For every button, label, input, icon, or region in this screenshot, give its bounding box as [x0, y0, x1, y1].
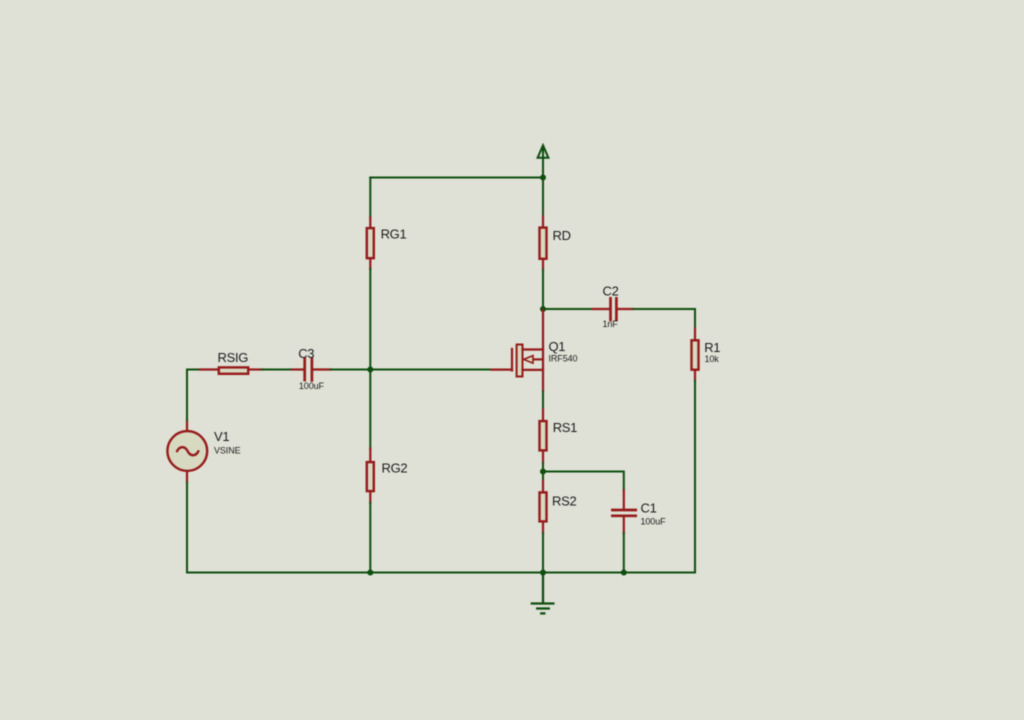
- capacitor C1: [612, 491, 666, 534]
- svg-text:RG2: RG2: [382, 461, 408, 476]
- wire top rail: [370, 177, 543, 179]
- svg-text:RD: RD: [553, 228, 571, 243]
- power symbol VDD arrow: [538, 145, 549, 158]
- wire C3 to gate: [331, 369, 492, 371]
- node drain junction: [540, 306, 546, 312]
- transistor Q1 IRF540: [492, 310, 578, 392]
- resistor RSIG: [200, 350, 262, 374]
- svg-text:C3: C3: [298, 346, 314, 361]
- svg-text:R1: R1: [704, 340, 720, 355]
- wire power to junction: [542, 158, 544, 178]
- wire RS1 bottom to junction: [542, 463, 544, 472]
- wire RS2 bottom: [542, 533, 544, 572]
- resistor RS1: [540, 410, 578, 464]
- svg-text:100uF: 100uF: [641, 517, 667, 527]
- wire source junction to C1: [543, 472, 624, 491]
- svg-text:IRF540: IRF540: [549, 354, 578, 364]
- wire C2 to R1 corner: [634, 309, 696, 329]
- source V1: [167, 420, 240, 482]
- svg-text:Q1: Q1: [549, 339, 566, 354]
- svg-text:RS1: RS1: [553, 420, 577, 435]
- wire Q1 source to RS1: [542, 392, 544, 410]
- svg-text:RSIG: RSIG: [218, 350, 249, 365]
- node source junction: [540, 469, 546, 475]
- svg-text:C1: C1: [641, 501, 657, 516]
- svg-text:100uF: 100uF: [299, 381, 325, 391]
- node gate junction: [367, 367, 373, 373]
- svg-text:RG1: RG1: [381, 227, 407, 242]
- svg-text:1nF: 1nF: [603, 319, 619, 329]
- wire RSIG to C3: [262, 369, 292, 371]
- resistor R1: [692, 329, 721, 382]
- svg-text:C2: C2: [603, 284, 619, 299]
- wire RG1 bottom to gate junction to RG2 top: [369, 269, 371, 449]
- wire RG2 bottom: [369, 503, 371, 573]
- wire bottom bus: [187, 572, 695, 574]
- resistor RD: [540, 217, 571, 271]
- ground: [532, 573, 554, 614]
- wire RG1 top: [369, 178, 371, 218]
- svg-text:RS2: RS2: [552, 494, 576, 509]
- node bus-RS2: [540, 570, 546, 576]
- wire C1 bottom: [623, 533, 625, 572]
- capacitor C3: [292, 346, 331, 391]
- resistor RG1: [367, 218, 407, 269]
- capacitor C2: [593, 284, 634, 330]
- wire V1 bottom: [186, 483, 188, 573]
- node top junction: [540, 175, 546, 181]
- wire drain junction to C2: [543, 308, 593, 310]
- wire RD bottom: [542, 270, 544, 309]
- wire V1 top: [186, 370, 188, 421]
- svg-text:10k: 10k: [705, 354, 720, 364]
- svg-text:V1: V1: [214, 429, 229, 444]
- svg-text:VSINE: VSINE: [214, 446, 241, 456]
- wire gate line from V1 corner: [187, 369, 200, 371]
- wire junction to RS2: [542, 472, 544, 482]
- node bus-RG2: [367, 570, 373, 576]
- wire R1 bottom: [694, 381, 696, 573]
- resistor RG2: [367, 449, 408, 503]
- resistor RS2: [540, 481, 577, 533]
- node bus-C1: [621, 570, 627, 576]
- wire RD top: [542, 178, 544, 217]
